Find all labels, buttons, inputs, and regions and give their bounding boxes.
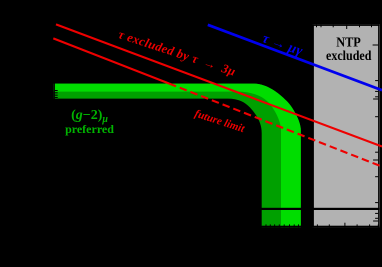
- black horizontal limit line: [53, 208, 379, 210]
- left axis ticks: [55, 91, 58, 98]
- gray NTP excluded band: [312, 24, 380, 227]
- blue line tau->mu gamma: [208, 25, 382, 90]
- red line tau->3mu current limit (solid): [56, 24, 382, 146]
- red line future limit solid part: [53, 38, 169, 83]
- plot frame bottom: [53, 226, 379, 228]
- plot frame right: [378, 24, 380, 227]
- bottom axis ticks: [266, 223, 378, 228]
- top axis ticks: [317, 24, 372, 29]
- plot frame left: [53, 24, 55, 227]
- plot frame top: [53, 24, 379, 26]
- green band outer region (2-sigma, medium green): [53, 84, 300, 228]
- green band inner region (1-sigma, bright green): [53, 84, 300, 228]
- svg-text:preferred: preferred: [65, 122, 114, 136]
- svg-text:excluded: excluded: [326, 47, 372, 63]
- gray band left border: [312, 24, 314, 227]
- right axis ticks: [373, 45, 379, 221]
- red line future limit dashed part: [169, 84, 382, 167]
